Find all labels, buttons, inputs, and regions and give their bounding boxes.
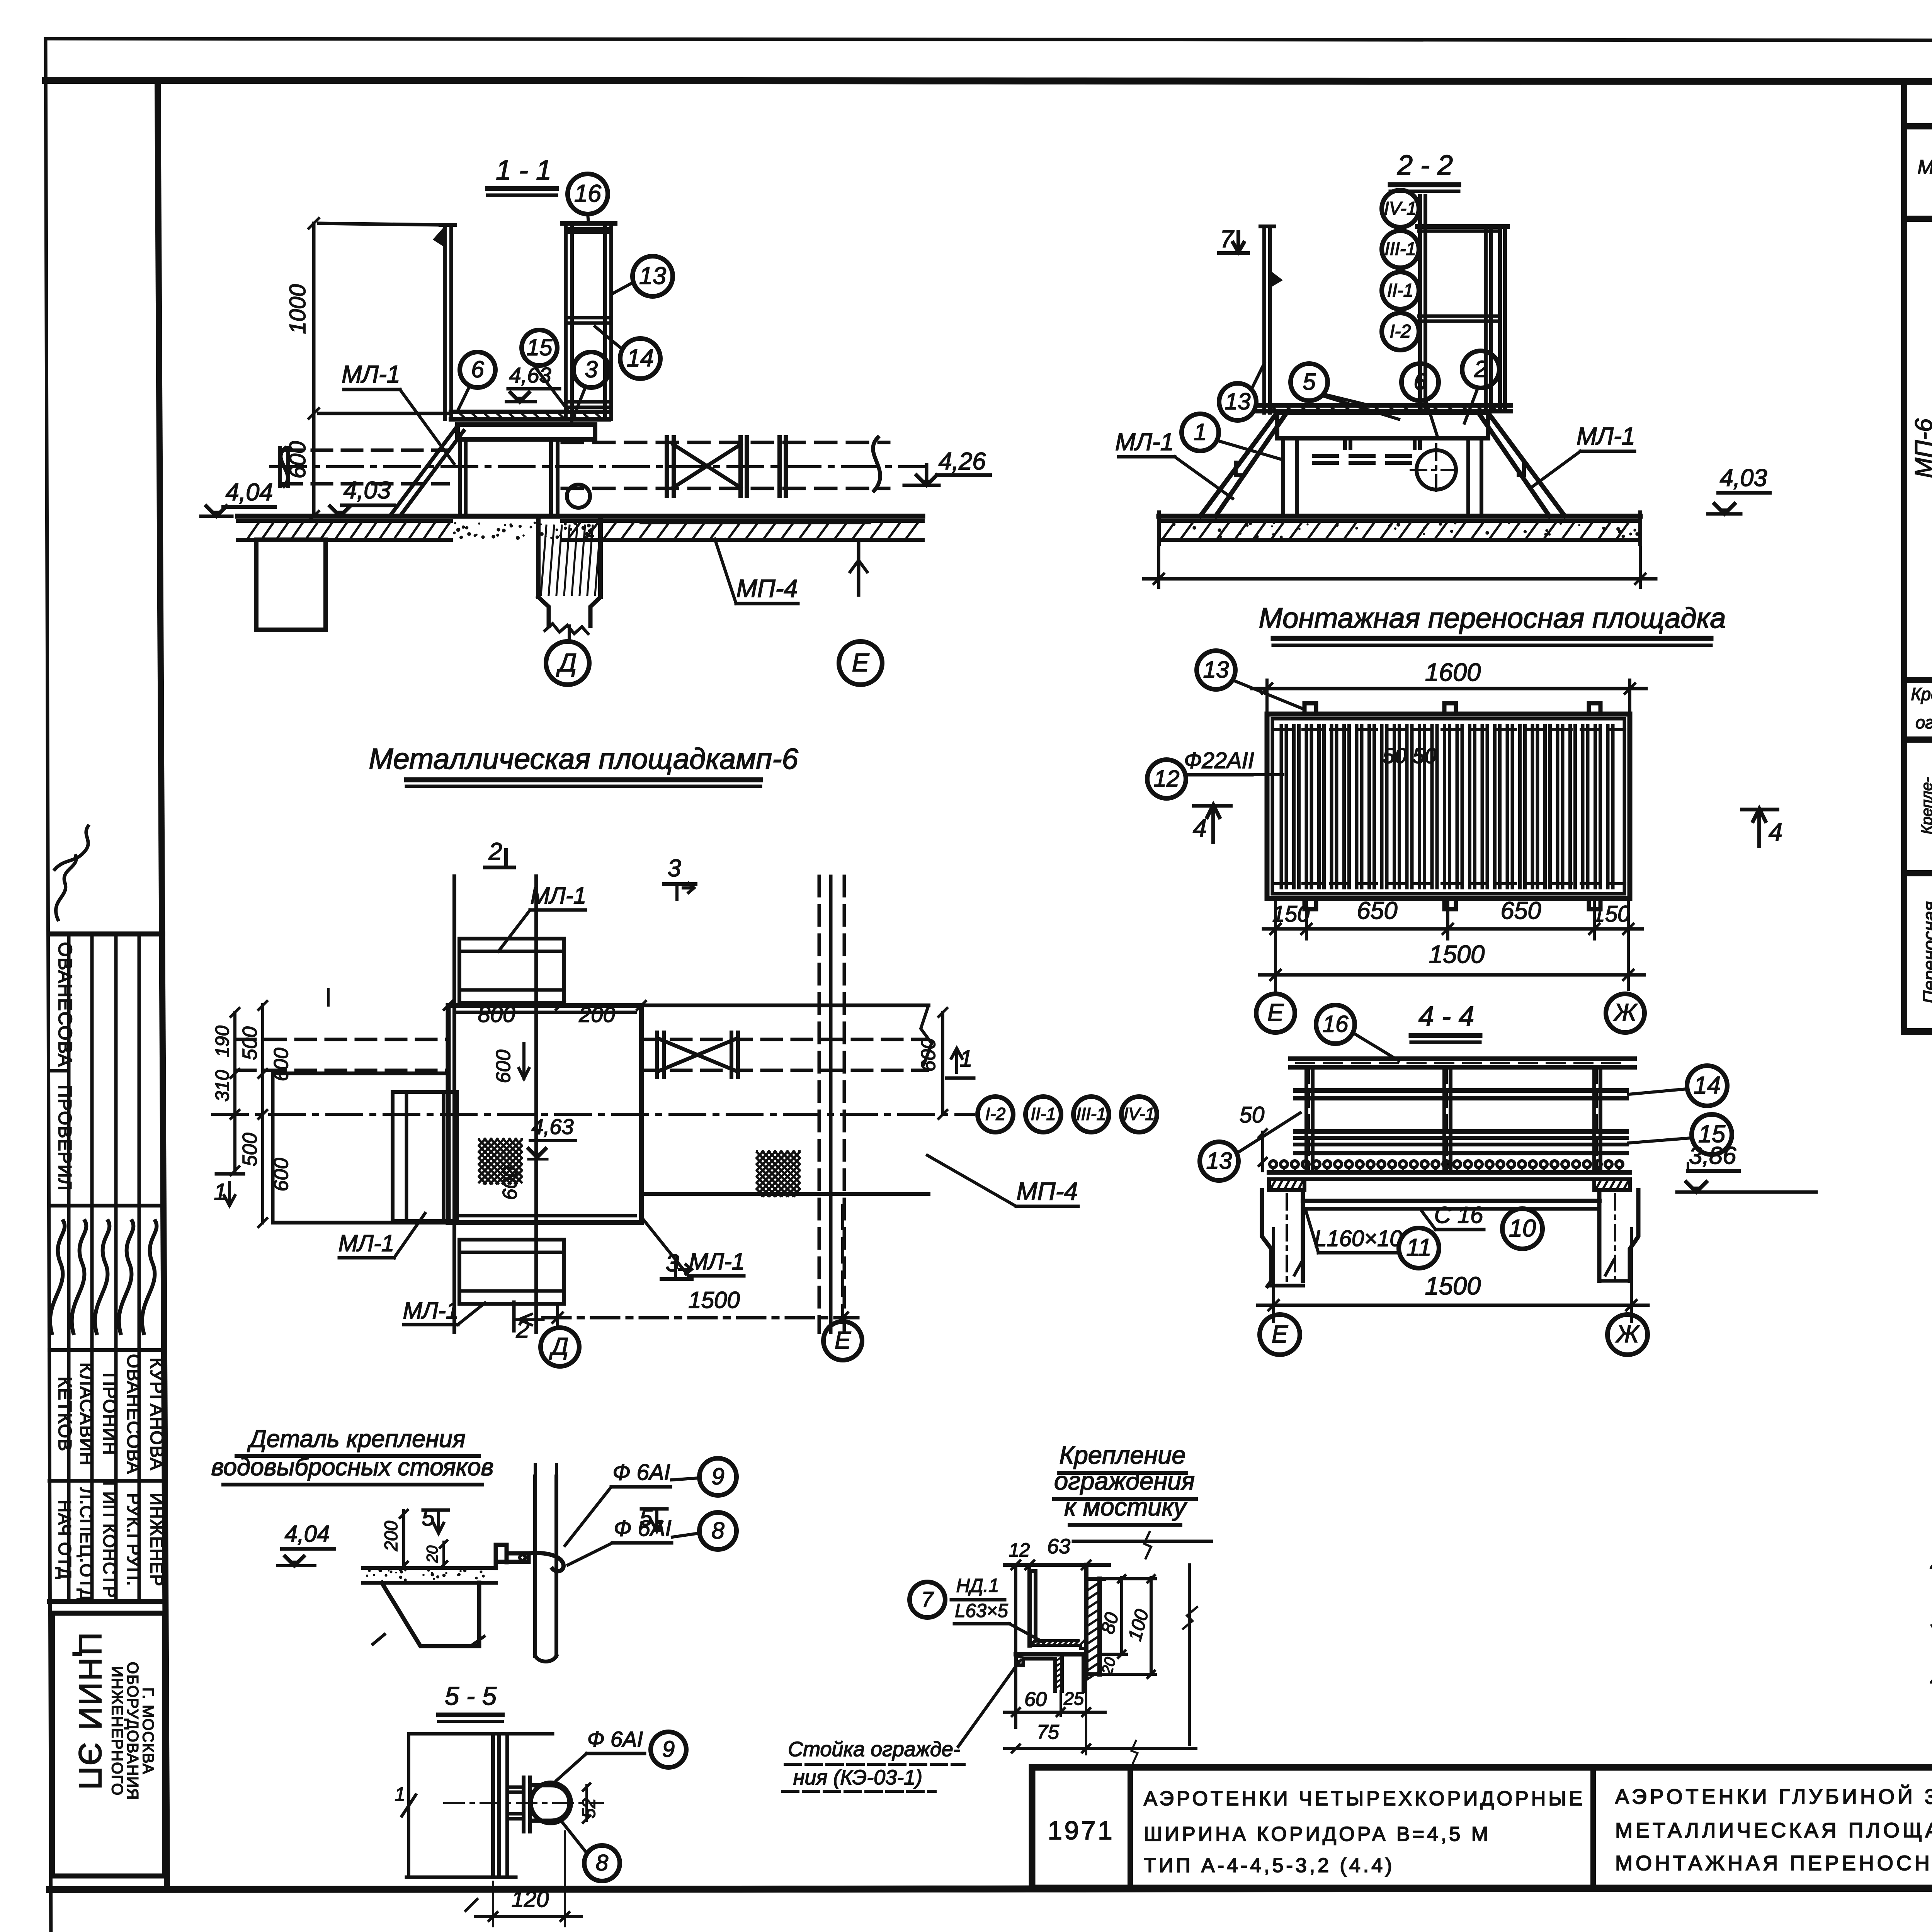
svg-text:ОВАНЕСОВА: ОВАНЕСОВА <box>54 942 75 1067</box>
section 1-1 MP-4 walkway <box>641 522 869 604</box>
section 1-1 left post <box>433 225 455 419</box>
svg-text:4. Место установки площадки: 4. Место установки площадки МП-6 см. КС-… <box>1930 1667 1932 1692</box>
plan MP-6 top arm bracket <box>459 939 564 1003</box>
svg-text:14: 14 <box>627 345 654 372</box>
grate top post stubs <box>1304 703 1600 909</box>
svg-text:Д: Д <box>549 1333 568 1360</box>
svg-text:I-2: I-2 <box>985 1104 1006 1124</box>
fence detail L63x5 angle <box>1030 1571 1086 1648</box>
grate section marks 4 <box>1193 805 1782 846</box>
section 1-1 platform beam <box>457 425 595 439</box>
svg-text:Марка: Марка <box>1917 156 1932 179</box>
plan MP-6 MЛ-1 labels <box>338 883 745 1325</box>
section 4-4 grate bar circles <box>1270 1161 1623 1173</box>
section 1-1 diagonal brace <box>388 426 464 516</box>
svg-text:11: 11 <box>1406 1234 1431 1261</box>
section 2-2 legs <box>1279 438 1486 516</box>
specification table <box>1904 82 1932 1032</box>
section 4-4 callout 14 <box>1687 1066 1727 1106</box>
section 1-1 callout 15 <box>522 330 557 366</box>
svg-text:13: 13 <box>1203 656 1229 682</box>
svg-text:Стойка огражде-: Стойка огражде- <box>788 1738 960 1761</box>
svg-text:1 - 1: 1 - 1 <box>496 155 551 186</box>
svg-text:С 16: С 16 <box>1434 1202 1483 1228</box>
svg-text:ГЛ.СПЕЦ.ОТД: ГЛ.СПЕЦ.ОТД <box>77 1478 96 1601</box>
svg-text:3: 3 <box>667 855 681 882</box>
svg-text:1500: 1500 <box>1425 1272 1481 1300</box>
fence detail right dims 80/100/20 <box>1097 1575 1155 1678</box>
section 5-5 dim 120 <box>466 1832 582 1926</box>
svg-text:120: 120 <box>512 1887 549 1912</box>
fence detail stanchion web hatched <box>1086 1565 1104 1680</box>
svg-text:ния (КЭ-03-1): ния (КЭ-03-1) <box>793 1766 922 1789</box>
fence detail bottom dims 60/25/75 <box>1005 1677 1196 1763</box>
svg-text:Монтажная переносная площадка: Монтажная переносная площадка <box>1259 602 1726 634</box>
section 4-4 callout 15 <box>1692 1114 1732 1155</box>
section 2-2 platform body <box>1277 413 1488 448</box>
svg-text:Ф 6АI: Ф 6АI <box>612 1460 670 1485</box>
grate hidden channels dashed <box>1275 730 1625 884</box>
section 2-2 callout 13 <box>1219 383 1256 420</box>
svg-text:190: 190 <box>212 1026 233 1057</box>
svg-text:МЛ-1: МЛ-1 <box>403 1298 459 1323</box>
svg-text:МЛ-1: МЛ-1 <box>1115 429 1174 456</box>
section 1-1 title <box>488 155 556 195</box>
svg-text:2: 2 <box>488 838 502 865</box>
section 1-1 axis D circle <box>546 626 589 685</box>
section 1-1 callout 3 <box>573 352 609 388</box>
detail bracket and hook <box>496 1545 563 1571</box>
section 1-1 hidden pipe dashed left <box>280 448 448 486</box>
svg-text:ПРОВЕРИЛ: ПРОВЕРИЛ <box>55 1085 75 1191</box>
svg-text:МЛ-1: МЛ-1 <box>342 361 400 388</box>
svg-text:150: 150 <box>1593 901 1630 927</box>
section 2-2 left post <box>1260 226 1283 413</box>
section 2-2 center post <box>1420 196 1425 411</box>
section 5-5 callout 8 <box>561 1821 620 1881</box>
section 4-4 toe rail (pos 15) <box>1295 1131 1627 1153</box>
svg-text:III-1: III-1 <box>1076 1104 1106 1124</box>
section 1-1 callout 16 <box>588 214 588 223</box>
svg-text:16: 16 <box>1323 1011 1349 1037</box>
left strip stamp texts <box>50 942 167 1601</box>
svg-text:НД.1: НД.1 <box>956 1575 999 1596</box>
svg-text:3,86: 3,86 <box>1689 1142 1737 1169</box>
svg-text:МЛ-1: МЛ-1 <box>338 1230 394 1256</box>
section 1-1 ladder post (pos 16/13/14) <box>562 223 615 419</box>
section 5-5 left dim line with break <box>395 1734 416 1877</box>
section 4-4 deck end hatched seats <box>1269 1179 1630 1190</box>
svg-text:к мостику: к мостику <box>1064 1493 1187 1521</box>
section 2-2 callout 5 <box>1291 364 1328 401</box>
svg-text:L160×10: L160×10 <box>1314 1226 1402 1251</box>
svg-text:АЭРОТЕНКИ ГЛУБИНОЙ 3,2 М.: АЭРОТЕНКИ ГЛУБИНОЙ 3,2 М. <box>1615 1785 1932 1808</box>
section 2-2 deck <box>1258 405 1511 411</box>
grate bars <box>1281 726 1613 888</box>
section 5-5 dim 52 <box>578 1784 599 1823</box>
svg-text:600: 600 <box>917 1038 940 1072</box>
section 2-2 callout 1 <box>1182 414 1219 451</box>
svg-text:50: 50 <box>1240 1102 1265 1128</box>
detail dim 200 and 20 <box>381 1510 447 1570</box>
svg-text:800: 800 <box>478 1002 515 1027</box>
svg-text:600: 600 <box>492 1050 515 1083</box>
svg-text:2 - 2: 2 - 2 <box>1397 150 1453 181</box>
left strip handwritten note <box>55 826 88 920</box>
section 4-4 title <box>1411 1001 1480 1042</box>
svg-text:КЛАСАВИН: КЛАСАВИН <box>77 1362 97 1466</box>
svg-text:7: 7 <box>921 1587 934 1611</box>
svg-text:13: 13 <box>1225 388 1251 414</box>
svg-text:13: 13 <box>639 262 666 289</box>
section 1-1 label 4.63 <box>506 363 560 402</box>
section 2-2 callout 6 <box>1401 364 1439 401</box>
section 1-1 levels 4.04 and 4.03 <box>201 477 394 516</box>
section 4-4 labels L160x10 / 11 / C16 / 10 <box>1306 1202 1543 1268</box>
svg-text:75: 75 <box>1037 1721 1060 1743</box>
section 1-1 dimension chain (1000/600) <box>285 218 448 521</box>
plan MP-6 right dim 600 and mark 1 <box>917 1008 974 1119</box>
fence detail right vertical dim with break <box>1183 1565 1197 1745</box>
svg-text:НАЧ ОТД: НАЧ ОТД <box>55 1500 75 1580</box>
svg-text:2: 2 <box>1474 356 1487 382</box>
svg-text:1971: 1971 <box>1048 1816 1114 1845</box>
plan MP-6 bottom dim 1500 and axes <box>541 1206 862 1366</box>
svg-text:КУРГАНОВА: КУРГАНОВА <box>147 1358 167 1471</box>
svg-text:Креплен.: Креплен. <box>1911 684 1932 704</box>
section 2-2 callout 2 <box>1462 351 1499 388</box>
svg-text:III-1: III-1 <box>1385 238 1416 259</box>
section 1-1 callout 6 <box>460 352 495 388</box>
section 1-1 floor slab <box>238 516 923 540</box>
plan MP-6 inner dims 600/600 and 4.63 <box>492 1043 576 1200</box>
svg-text:4,04: 4,04 <box>285 1521 330 1547</box>
svg-text:12: 12 <box>1009 1540 1030 1561</box>
svg-text:9: 9 <box>662 1737 675 1762</box>
svg-text:4,03: 4,03 <box>344 477 391 504</box>
svg-text:L63×5: L63×5 <box>955 1600 1008 1621</box>
svg-text:I-2: I-2 <box>1390 321 1411 341</box>
svg-text:Металлическая площадкамп-6: Металлическая площадкамп-6 <box>369 743 798 776</box>
section 2-2 hidden dashes inside <box>1236 456 1524 475</box>
plan MP-6 right walkway MP-4 <box>641 1005 932 1194</box>
svg-text:4,63: 4,63 <box>509 363 551 387</box>
portable platform plan (grate) <box>1267 714 1630 898</box>
svg-text:4,26: 4,26 <box>939 448 986 475</box>
section 2-2 bottom dim line <box>1144 544 1656 587</box>
svg-text:огражд.: огражд. <box>1915 713 1932 732</box>
svg-text:ЦНИИ ЭП: ЦНИИ ЭП <box>72 1632 108 1791</box>
svg-text:Ф 6АI: Ф 6АI <box>614 1516 671 1541</box>
svg-text:14: 14 <box>1694 1072 1721 1099</box>
grate bottom dims 150/650/650/150 <box>1264 897 1642 939</box>
section 5-5 U-bolt clamp <box>507 1777 571 1832</box>
detail callouts F6AI 9 / 8 <box>565 1458 736 1565</box>
svg-text:60: 60 <box>1024 1688 1047 1711</box>
svg-text:650: 650 <box>1500 897 1541 924</box>
plan MP-6 axis line with section circles <box>213 1097 1157 1132</box>
svg-text:Г. МОСКВА: Г. МОСКВА <box>139 1687 156 1775</box>
section 2-2 title <box>1390 150 1459 191</box>
svg-text:200: 200 <box>381 1521 401 1551</box>
svg-text:1600: 1600 <box>1425 658 1481 686</box>
section 1-1 platform deck <box>451 412 609 419</box>
svg-text:1000: 1000 <box>285 284 310 334</box>
svg-text:ГИП КОНСТР: ГИП КОНСТР <box>100 1481 119 1598</box>
fence detail stoyka label <box>782 1662 1019 1791</box>
svg-text:63: 63 <box>1047 1535 1070 1558</box>
svg-text:1500: 1500 <box>1429 940 1485 968</box>
svg-text:200: 200 <box>578 1002 615 1027</box>
section 1-1 callout 14 <box>620 338 660 379</box>
section 4-4 dim 1500 <box>1258 1229 1648 1321</box>
svg-text:6: 6 <box>1413 369 1427 395</box>
svg-text:МП-6: МП-6 <box>1910 418 1932 478</box>
grate callout 13 <box>1197 651 1235 689</box>
svg-text:МЛ-1: МЛ-1 <box>689 1248 745 1274</box>
svg-text:310: 310 <box>212 1070 233 1102</box>
CNII EP block <box>53 1613 165 1876</box>
svg-text:600: 600 <box>499 1167 521 1200</box>
fence detail callout 7 / ND-1 / L63x5 <box>910 1575 1043 1642</box>
section 4-4 dim 50 <box>1240 1102 1267 1171</box>
svg-text:Е: Е <box>1272 1321 1288 1348</box>
svg-text:150: 150 <box>1272 901 1310 927</box>
svg-text:4,63: 4,63 <box>532 1114 574 1139</box>
plan MP-6 section marks 2 (top/bottom) <box>485 838 543 1343</box>
svg-text:8: 8 <box>596 1850 608 1876</box>
svg-text:IV-1: IV-1 <box>1384 198 1417 218</box>
svg-text:3. Сварку производить элект: 3. Сварку производить электродами типа Э… <box>1930 1609 1932 1634</box>
fence detail title <box>1054 1441 1196 1525</box>
svg-text:Ж: Ж <box>1615 1321 1640 1348</box>
svg-text:МЕТАЛЛИЧЕСКАЯ ПЛОЩАДКА МП-6.: МЕТАЛЛИЧЕСКАЯ ПЛОЩАДКА МП-6. <box>1615 1819 1932 1842</box>
section 4-4 callout 13 <box>1200 1142 1238 1180</box>
section 1-1 left support below floor <box>256 540 326 630</box>
section 4-4 pedestals <box>1262 1190 1638 1287</box>
section 1-1 callout MЛ-1 <box>342 361 454 464</box>
spec table header text <box>1917 83 1932 211</box>
svg-text:Ф 6АI: Ф 6АI <box>587 1727 643 1751</box>
section 5-5 post <box>406 1734 553 1877</box>
svg-text:ШИРИНА КОРИДОРА В=4,5 М: ШИРИНА КОРИДОРА В=4,5 М <box>1144 1823 1491 1845</box>
title block <box>1032 1767 1932 1888</box>
grate dim 1500 <box>1260 939 1644 989</box>
section 2-2 level 4.03 <box>1708 464 1770 514</box>
svg-text:МП-4: МП-4 <box>736 574 798 602</box>
fence detail dims 12 63 <box>1005 1532 1211 1727</box>
plan MP-6 bottom-left mark 1 <box>214 1174 243 1206</box>
grate callout 12 with F22AII <box>1147 748 1283 798</box>
svg-text:7: 7 <box>1220 226 1234 253</box>
plan MP-6 hatch patches <box>479 1139 799 1196</box>
svg-text:МЛ-1: МЛ-1 <box>531 883 586 908</box>
svg-text:10: 10 <box>1509 1215 1536 1242</box>
plan MP-6 section marks 3 (top/mid) <box>662 855 696 1279</box>
svg-text:1: 1 <box>214 1179 226 1205</box>
svg-text:Ж: Ж <box>1613 999 1638 1026</box>
section 5-5 title <box>439 1682 502 1721</box>
svg-text:4,04: 4,04 <box>226 479 273 506</box>
plan MP-6 valve symbol <box>657 1032 738 1077</box>
section 4-4 top rail (pos 16) <box>1291 1059 1634 1067</box>
detail section marks 5-5 <box>422 1505 667 1533</box>
section 5-5 callout 9 <box>556 1727 686 1781</box>
section 2-2 pipe circle <box>1411 444 1462 495</box>
svg-text:3: 3 <box>585 356 597 382</box>
section 2-2 mark 7 <box>1219 226 1248 253</box>
svg-text:ИНЖЕНЕРНОГО: ИНЖЕНЕРНОГО <box>109 1666 126 1796</box>
svg-text:1: 1 <box>1194 419 1206 445</box>
detail level 4.04 <box>277 1521 334 1566</box>
svg-text:2. Сварные швы равны наимен: 2. Сварные швы равны наименьшей толщине <box>1930 1549 1932 1574</box>
svg-text:500: 500 <box>239 1133 261 1167</box>
svg-text:600: 600 <box>270 1048 293 1082</box>
svg-text:II-1: II-1 <box>1031 1104 1056 1124</box>
svg-text:1500: 1500 <box>688 1287 740 1313</box>
fence detail bottom cap channel <box>1016 1654 1083 1691</box>
section 1-1 callout 13 <box>633 256 673 296</box>
svg-text:Е: Е <box>852 648 870 677</box>
svg-text:13: 13 <box>1206 1148 1232 1173</box>
section 1-1 level 4.26 <box>904 448 990 485</box>
section 1-1 column under floor <box>453 521 601 634</box>
section 1-1 axis E circle <box>839 541 882 685</box>
svg-text:РУК.ГРУП.: РУК.ГРУП. <box>124 1493 143 1586</box>
grate axis E and Zh <box>1256 989 1645 1032</box>
section 1-1 concrete hatch + speckle <box>247 522 918 539</box>
plan MP-6 bottom arm bracket <box>459 1240 564 1304</box>
plan MP-6 dims 800/200 <box>328 989 646 1027</box>
spec table row lines <box>1904 243 1932 1008</box>
detail title (vodo-vybrosnyh stoyakov) <box>211 1425 494 1485</box>
inner frame top thick line <box>46 80 1932 82</box>
svg-text:ПРОНИН: ПРОНИН <box>100 1373 120 1456</box>
svg-text:МОНТАЖНАЯ ПЕРЕНОСНАЯ ПЛОЩАДКА.: МОНТАЖНАЯ ПЕРЕНОСНАЯ ПЛОЩАДКА. <box>1615 1852 1932 1875</box>
svg-text:16: 16 <box>574 180 602 207</box>
svg-text:5 - 5: 5 - 5 <box>445 1682 497 1711</box>
section 4-4 posts <box>1306 1067 1600 1172</box>
svg-text:ТИП А-4-4,5-3,2 (4.4): ТИП А-4-4,5-3,2 (4.4) <box>1144 1854 1395 1877</box>
section 5-5 axis <box>444 1802 603 1804</box>
svg-text:водовыбросных стояков: водовыбросных стояков <box>211 1454 494 1481</box>
svg-text:ИНЖЕНЕР: ИНЖЕНЕР <box>147 1493 167 1587</box>
section 4-4 axis E / Zh circles <box>1260 1315 1648 1355</box>
svg-text:500: 500 <box>239 1027 261 1060</box>
section 1-1 legs and pipe circle <box>460 439 590 516</box>
section 4-4 level 3.86 <box>1677 1142 1816 1192</box>
section 2-2 floor <box>1159 512 1640 544</box>
svg-text:Ф22АII: Ф22АII <box>1184 748 1254 773</box>
svg-text:ОБОРУДОВАНИЯ: ОБОРУДОВАНИЯ <box>124 1662 141 1800</box>
detail slab <box>363 1568 496 1583</box>
section 2-2 MЛ-1 labels <box>1115 423 1635 498</box>
section 4-4 deck <box>1269 1172 1630 1179</box>
plan MP-6 right inner column dashed <box>819 876 844 1332</box>
detail wall below slab <box>373 1583 484 1646</box>
plan MP-6 left dim chain <box>212 1001 293 1227</box>
svg-text:IV-1: IV-1 <box>1124 1104 1155 1124</box>
section 1-1 hidden pipe dashed right with valve <box>562 437 889 496</box>
svg-text:650: 650 <box>1357 897 1397 924</box>
notes (Primechaniya) <box>1930 1440 1932 1723</box>
svg-text:Переносная: Переносная <box>1919 901 1932 1003</box>
inner frame left (strip right edge) <box>158 81 167 1885</box>
svg-text:50 50: 50 50 <box>1383 743 1437 768</box>
svg-text:20: 20 <box>424 1546 441 1563</box>
plan MP-6 title <box>369 743 798 786</box>
svg-text:II-1: II-1 <box>1387 280 1413 300</box>
plan MP-6 MP-4 label <box>927 1155 1078 1206</box>
svg-text:МЛ-1: МЛ-1 <box>1577 423 1635 450</box>
left strip stamp table <box>49 934 163 1602</box>
section 1-1 pipe axis <box>270 465 923 468</box>
section 4-4 mid rail (pos 14) <box>1295 1090 1627 1098</box>
svg-text:25: 25 <box>1063 1688 1084 1709</box>
section 2-2 right ladder rails <box>1417 226 1508 411</box>
section 2-2 rung label circles <box>1382 190 1419 350</box>
plan MP-6 hidden pipe dashed <box>236 1039 927 1070</box>
inner frame bottom thick line <box>49 1888 1932 1889</box>
spec table marka labels <box>1910 275 1932 1003</box>
svg-text:Е: Е <box>835 1327 851 1354</box>
title: montazhnaya perenosnaya ploshchadka <box>1259 602 1726 645</box>
svg-text:4 - 4: 4 - 4 <box>1418 1001 1474 1032</box>
svg-text:МП-4: МП-4 <box>1016 1177 1078 1205</box>
svg-text:5: 5 <box>1303 369 1316 395</box>
detail pipe <box>535 1464 556 1662</box>
svg-text:ограждения: ограждения <box>1054 1467 1195 1495</box>
plan MP-6 center vertical walkway <box>454 876 536 1332</box>
plan MP-6 center platform rect <box>448 1005 641 1223</box>
svg-text:АЭРОТЕНКИ ЧЕТЫРЕХКОРИДОРНЫЕ: АЭРОТЕНКИ ЧЕТЫРЕХКОРИДОРНЫЕ <box>1144 1787 1585 1810</box>
svg-text:15: 15 <box>527 334 553 360</box>
svg-text:1: 1 <box>395 1784 405 1805</box>
svg-text:Крепле-: Крепле- <box>1918 777 1932 834</box>
svg-text:Крепление: Крепление <box>1059 1441 1185 1469</box>
section 4-4 callout 16 <box>1316 1005 1355 1044</box>
svg-text:4,03: 4,03 <box>1720 464 1767 492</box>
svg-text:Деталь крепления: Деталь крепления <box>247 1425 465 1452</box>
section 2-2 A-frame braces <box>1194 413 1571 516</box>
grate dim 1600 <box>1252 658 1646 714</box>
section 4-4 bottom beam (pos 10/11) <box>1303 1190 1599 1209</box>
svg-text:Е: Е <box>1267 999 1284 1026</box>
svg-text:Д: Д <box>556 648 577 677</box>
svg-text:6: 6 <box>471 356 484 382</box>
plan MP-6 left arm <box>273 1073 457 1223</box>
svg-text:9: 9 <box>711 1463 724 1489</box>
svg-text:12: 12 <box>1154 765 1180 791</box>
svg-text:600: 600 <box>270 1158 293 1192</box>
svg-text:4: 4 <box>1769 818 1782 846</box>
svg-text:КЕТКОВ: КЕТКОВ <box>55 1377 75 1452</box>
svg-text:ОВАНЕСОВА: ОВАНЕСОВА <box>124 1354 144 1475</box>
svg-text:8: 8 <box>711 1517 724 1543</box>
